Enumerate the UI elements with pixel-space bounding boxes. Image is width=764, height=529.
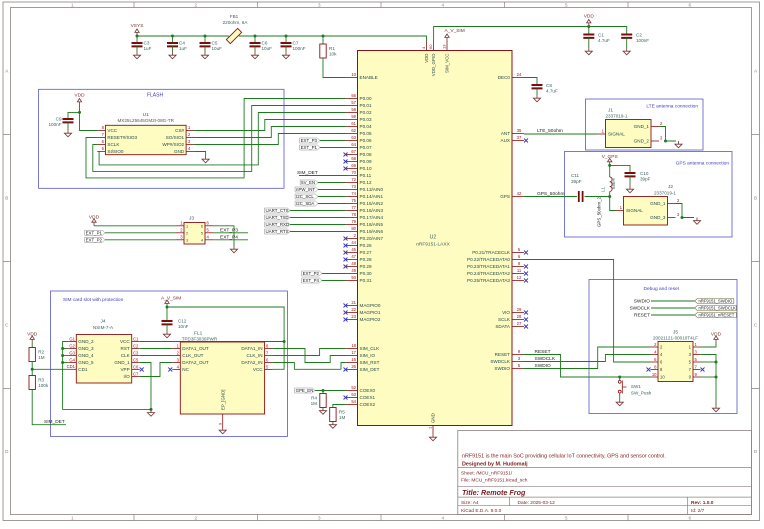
junction VCC/A_V_SIM	[283, 340, 286, 343]
wire I/O to DATA2_OUT	[140, 363, 173, 377]
wire EXT_P2 to P0.30	[322, 273, 346, 275]
svg-text:EXT_P1: EXT_P1	[301, 145, 318, 150]
svg-text:GPS: GPS	[500, 194, 510, 199]
svg-text:R3: R3	[38, 377, 44, 382]
flash memory U1	[97, 112, 194, 155]
wire SWDIO hier	[651, 300, 695, 302]
svg-text:75: 75	[351, 198, 356, 203]
wire RST to DATA1_OUT	[140, 348, 173, 350]
svg-text:1: 1	[71, 515, 74, 520]
svg-text:CLK_IN: CLK_IN	[247, 353, 263, 358]
resistor R2	[29, 348, 45, 362]
power symbol VDD (J5)	[711, 332, 722, 344]
svg-text:SIM_DET: SIM_DET	[44, 419, 65, 425]
wire R2 to R3	[31, 362, 33, 376]
wire to R4	[322, 391, 324, 394]
junction R2/R3/CD1	[31, 368, 34, 371]
svg-text:4: 4	[201, 238, 203, 242]
wire J4 GND stub	[63, 348, 69, 350]
svg-text:3: 3	[318, 515, 321, 520]
svg-text:220ohm, 6A: 220ohm, 6A	[223, 20, 249, 25]
svg-text:10k: 10k	[329, 52, 337, 57]
svg-text:60: 60	[428, 44, 433, 49]
svg-text:P0.22/TRACEDATA0: P0.22/TRACEDATA0	[467, 257, 510, 262]
wire to SIM_RST	[341, 363, 346, 370]
global label EXT_P2 (U2)	[302, 271, 322, 276]
power symbol VDD (top right)	[584, 14, 595, 27]
svg-text:C1: C1	[133, 336, 139, 341]
wire DATA1_IN to SIM_IO	[273, 349, 346, 363]
wire C4 to ground	[172, 46, 174, 52]
svg-text:DATA1_IN: DATA1_IN	[241, 346, 262, 351]
svg-text:RESET#/SIO3: RESET#/SIO3	[107, 135, 137, 140]
svg-text:4: 4	[441, 515, 444, 520]
svg-text:P0.25/TRACEDATA3: P0.25/TRACEDATA3	[467, 278, 510, 283]
global label I2C_SCL	[295, 194, 318, 199]
wire J3 pin5 EXT_P3	[213, 232, 248, 234]
wire U1 SO to U2 P0.04	[194, 127, 345, 138]
junction J5 pin5	[715, 361, 718, 364]
svg-text:B: B	[754, 196, 757, 201]
junction rail/C4	[171, 35, 174, 38]
resistor R4	[311, 394, 327, 408]
resistor R1	[320, 44, 337, 58]
debug connector J5	[651, 330, 701, 382]
wire RESET hier	[651, 314, 695, 316]
svg-text:VPP: VPP	[120, 367, 129, 372]
svg-text:VSYS: VSYS	[131, 23, 144, 29]
svg-text:42: 42	[517, 191, 522, 196]
no-connect J4 VPP	[140, 368, 144, 372]
svg-text:78: 78	[351, 212, 356, 217]
svg-text:SW_Push: SW_Push	[631, 391, 652, 396]
svg-text:SWDCLK: SWDCLK	[490, 359, 511, 364]
svg-text:VIO: VIO	[502, 310, 510, 315]
svg-text:UART_RTS: UART_RTS	[266, 229, 289, 234]
svg-text:VDD: VDD	[89, 215, 100, 221]
svg-text:COEX0: COEX0	[360, 388, 376, 393]
svg-text:5: 5	[201, 231, 203, 235]
resistor R5	[330, 408, 346, 422]
wire V_GPS to C10	[610, 165, 630, 173]
ground below R5	[329, 422, 336, 429]
junction J5 pin9	[715, 376, 718, 379]
svg-text:GND: GND	[431, 413, 436, 423]
svg-text:SW1: SW1	[631, 384, 641, 389]
wire R1 to ENABLE	[323, 58, 346, 78]
svg-text:L1: L1	[601, 186, 606, 191]
wire SIM_DET to P0.11	[299, 175, 346, 177]
hierarchical label nRF9151_SWDCLK	[695, 306, 737, 311]
junction V_GPS	[608, 164, 611, 167]
svg-text:SO/SIO1: SO/SIO1	[166, 135, 185, 140]
wire SWDIO to J5 pin2	[524, 347, 651, 369]
wire VDD_GPIO to VDD symbol	[434, 27, 589, 42]
svg-text:6: 6	[201, 224, 203, 228]
ground below C8	[533, 95, 540, 102]
wire CLK_IN to SIM_CLK	[273, 349, 346, 356]
wire C9 to ground	[67, 122, 69, 130]
antenna connector J1	[598, 108, 664, 148]
svg-text:SCLK: SCLK	[107, 142, 120, 147]
svg-text:45: 45	[351, 247, 356, 252]
svg-text:P0.10: P0.10	[360, 166, 372, 171]
svg-text:P0.02: P0.02	[360, 110, 372, 115]
ground below C6	[251, 52, 258, 59]
no-connect FL1 NC	[168, 368, 172, 372]
wire C11 to L1 node	[585, 196, 610, 198]
junction A_V_SIM	[166, 306, 169, 309]
svg-text:UART_RXD: UART_RXD	[266, 222, 290, 227]
svg-text:57: 57	[351, 100, 356, 105]
LTE antenna group box	[586, 99, 704, 150]
svg-text:COEX1: COEX1	[360, 395, 376, 400]
svg-text:Id: 2/7: Id: 2/7	[691, 508, 705, 514]
power symbol VDD (SIM)	[27, 332, 38, 344]
Debug group box	[589, 280, 737, 414]
svg-text:I/O: I/O	[124, 374, 131, 379]
wire C5 to ground	[204, 46, 206, 52]
svg-text:EXT_P3: EXT_P3	[301, 138, 318, 143]
svg-text:2: 2	[194, 515, 197, 520]
wire VDD rail right to U2 VDD pin	[239, 36, 427, 41]
title block	[458, 431, 752, 515]
junction GPS/L1	[608, 195, 611, 198]
svg-text:50: 50	[351, 275, 356, 280]
svg-text:16: 16	[351, 357, 356, 362]
ground below C9	[64, 130, 71, 137]
svg-text:EXT_P3: EXT_P3	[220, 227, 238, 233]
wire GND_1 down	[140, 363, 151, 410]
svg-text:TPD3F3030PWR: TPD3F3030PWR	[182, 337, 218, 342]
svg-text:SIM_VCC: SIM_VCC	[445, 54, 450, 74]
ground below U1 GND	[202, 156, 209, 163]
svg-text:GND: GND	[174, 149, 185, 154]
capacitor C8	[532, 83, 558, 94]
wire rail to C3	[136, 36, 138, 43]
wire R3 to SIM_DET	[32, 390, 66, 425]
svg-text:10nF: 10nF	[178, 324, 189, 329]
SIM group box	[51, 291, 288, 437]
global label I2C_SDA	[295, 201, 318, 206]
svg-text:2: 2	[194, 3, 197, 8]
svg-text:AUX: AUX	[501, 138, 510, 143]
wire UART_CTS	[290, 210, 346, 212]
svg-text:SWDIO: SWDIO	[494, 366, 510, 371]
svg-text:DATA1_OUT: DATA1_OUT	[182, 346, 209, 351]
wire DEC0 to C8	[524, 78, 537, 86]
svg-text:P0.21/TRACECLK: P0.21/TRACECLK	[472, 250, 511, 255]
power symbol A_V_SIM (U2)	[445, 28, 465, 41]
svg-text:C5: C5	[212, 41, 218, 46]
svg-text:GND_1: GND_1	[650, 201, 666, 206]
ground J1	[675, 141, 682, 148]
antenna connector J2	[616, 184, 681, 225]
wire VDD to C2	[589, 27, 627, 35]
wire C2 to ground	[626, 38, 628, 48]
wire rail to C4	[172, 36, 174, 43]
SIM filter FL1 TPD3F3030PWR	[172, 331, 272, 428]
svg-text:EXT_P1: EXT_P1	[86, 230, 103, 235]
svg-text:GND_4: GND_4	[78, 353, 94, 358]
ground below C10	[626, 186, 633, 193]
wire EXT_P3 to P0.06	[320, 140, 346, 142]
svg-text:CS#: CS#	[175, 128, 184, 133]
junction J4 GND tie	[61, 354, 64, 357]
wire C10 to ground	[629, 176, 631, 186]
svg-text:4.7uF: 4.7uF	[546, 89, 558, 94]
ground below C2	[623, 48, 630, 55]
svg-text:67: 67	[351, 149, 356, 154]
svg-text:C10: C10	[640, 171, 649, 176]
svg-text:10: 10	[652, 372, 657, 377]
svg-text:28: 28	[517, 314, 522, 319]
svg-text:nPW_INT: nPW_INT	[296, 187, 315, 192]
ground below C4	[169, 52, 176, 59]
wire EXT_P1 to P0.07	[320, 147, 346, 149]
ground below C1	[585, 48, 592, 55]
svg-text:EXT_P4: EXT_P4	[220, 234, 238, 240]
svg-text:MX25L25645GM2I-08G-TR: MX25L25645GM2I-08G-TR	[117, 118, 174, 123]
svg-text:52: 52	[351, 385, 356, 390]
capacitor C3	[132, 41, 152, 52]
svg-text:nRF9151_nRESET: nRF9151_nRESET	[699, 313, 735, 318]
junction SIM ground	[150, 408, 153, 411]
global label UART_RXD	[265, 222, 291, 227]
wire I2C_SCL	[318, 196, 346, 198]
ground below U2	[429, 434, 436, 441]
svg-text:39pF: 39pF	[640, 177, 651, 182]
svg-text:GPS antenna connection: GPS antenna connection	[676, 161, 730, 167]
wire J5 gnd rail	[701, 355, 717, 406]
power symbol A_V_SIM (SIM)	[161, 296, 181, 308]
svg-text:SWDCLK: SWDCLK	[629, 306, 650, 312]
svg-text:P0.24/TRACEDATA2: P0.24/TRACEDATA2	[467, 271, 510, 276]
svg-text:R5: R5	[339, 409, 345, 414]
svg-text:1M: 1M	[339, 415, 346, 420]
svg-text:EXT_P4: EXT_P4	[303, 278, 320, 283]
wire P0.22 to J5 pin6	[524, 260, 651, 363]
svg-text:73: 73	[351, 184, 356, 189]
svg-text:nRF9151 is the main SoC provid: nRF9151 is the main SoC providing cellul…	[462, 453, 666, 459]
svg-text:P0.19/AIN6: P0.19/AIN6	[360, 229, 384, 234]
wire to CD1	[32, 368, 68, 370]
wire J4 GND stub	[63, 362, 69, 364]
wire 5V_EN	[318, 182, 346, 184]
wire DATA2_IN toward SIM_RST	[273, 363, 341, 370]
svg-text:20021121-00010T4LF: 20021121-00010T4LF	[653, 336, 698, 341]
inductor L1	[601, 165, 616, 196]
ground FL1 EP	[219, 427, 226, 434]
svg-text:UART_TXD: UART_TXD	[266, 215, 289, 220]
svg-text:VDD: VDD	[74, 93, 85, 99]
svg-text:23: 23	[351, 314, 356, 319]
svg-text:1: 1	[71, 3, 74, 8]
wire UART_TXD	[290, 217, 346, 219]
svg-text:FLASH: FLASH	[147, 93, 164, 99]
wire rail to C7	[285, 36, 287, 43]
svg-text:11: 11	[517, 268, 522, 273]
svg-text:Sheet: /MCU_nRF9151/: Sheet: /MCU_nRF9151/	[461, 471, 513, 477]
svg-text:P0.06: P0.06	[360, 138, 372, 143]
junction J4 GND tie	[61, 347, 64, 350]
wire rail to C6	[254, 36, 256, 43]
svg-text:5V_EN: 5V_EN	[301, 180, 315, 185]
svg-text:Debug and reset: Debug and reset	[644, 286, 680, 292]
svg-text:ENABLE: ENABLE	[360, 75, 378, 80]
svg-text:56: 56	[351, 93, 356, 98]
svg-text:77: 77	[351, 205, 356, 210]
ground below C5	[201, 52, 208, 59]
svg-text:C6: C6	[133, 364, 139, 369]
wire ANT to J1 SIGNAL	[524, 133, 598, 135]
wire GPE_EN to COEX0	[315, 390, 346, 392]
power symbol VDD (flash)	[74, 93, 85, 106]
svg-text:nRF9151-LAXX: nRF9151-LAXX	[416, 242, 450, 248]
wire nPW_INT	[318, 189, 346, 191]
svg-text:MAGPIO0: MAGPIO0	[360, 303, 381, 308]
svg-text:GND_5: GND_5	[78, 360, 94, 365]
svg-text:GND_1: GND_1	[114, 360, 130, 365]
svg-text:R4: R4	[311, 395, 317, 400]
svg-text:EXT_P2: EXT_P2	[303, 271, 320, 276]
svg-text:3: 3	[318, 3, 321, 8]
svg-text:SIM_RST: SIM_RST	[360, 360, 380, 365]
global label nPW_INT	[295, 187, 318, 192]
svg-text:GND_2: GND_2	[78, 339, 94, 344]
svg-text:LTE_50ohm: LTE_50ohm	[537, 128, 563, 134]
svg-text:39pF: 39pF	[571, 179, 582, 184]
svg-text:GND_3: GND_3	[78, 346, 94, 351]
ground below C3	[133, 52, 140, 59]
svg-text:13: 13	[442, 44, 447, 49]
switch SW1	[618, 377, 651, 396]
svg-text:GPE_EN: GPE_EN	[296, 388, 314, 393]
svg-text:C12: C12	[178, 319, 187, 324]
capacitor C4	[167, 41, 187, 52]
junction J4 GND tie	[61, 361, 64, 364]
wire GPS to C11	[524, 196, 577, 198]
wire C8 to ground	[536, 88, 538, 95]
capacitor C12	[162, 319, 189, 330]
junction rail/C5	[204, 35, 207, 38]
svg-text:P0.04: P0.04	[360, 124, 372, 129]
svg-text:P0.11: P0.11	[360, 173, 372, 178]
svg-text:V_GPS: V_GPS	[602, 154, 618, 160]
capacitor C10	[625, 171, 651, 182]
svg-text:SIM card slot with protection: SIM card slot with protection	[63, 297, 124, 303]
svg-text:DATA2_IN: DATA2_IN	[241, 360, 262, 365]
svg-text:DATA2_OUT: DATA2_OUT	[182, 360, 209, 365]
GPS antenna group box	[565, 152, 733, 238]
wire VSYS rail left	[137, 35, 229, 37]
svg-text:10uF: 10uF	[212, 46, 223, 51]
junction SW1	[618, 376, 621, 379]
capacitor C5	[200, 41, 223, 52]
svg-text:R1: R1	[329, 46, 335, 51]
wire U1 CS# to U2 P0.03	[194, 120, 345, 131]
svg-text:P0.20/AIN7: P0.20/AIN7	[360, 236, 384, 241]
svg-text:54: 54	[351, 399, 356, 404]
ground below C12	[163, 331, 170, 338]
capacitor C7	[281, 41, 306, 52]
svg-text:GND_3: GND_3	[650, 215, 666, 220]
svg-text:A_V_SIM: A_V_SIM	[161, 296, 181, 302]
svg-text:37: 37	[517, 135, 522, 140]
svg-text:U2: U2	[430, 235, 437, 241]
svg-text:2337019-1: 2337019-1	[654, 191, 676, 196]
ground below R4	[319, 408, 326, 415]
junction VDD/C9	[78, 111, 81, 114]
svg-text:Designed by M. Hudomalj: Designed by M. Hudomalj	[462, 462, 528, 468]
svg-text:17: 17	[351, 350, 356, 355]
svg-text:VCC: VCC	[120, 339, 130, 344]
svg-text:B: B	[5, 196, 8, 201]
svg-text:VDD: VDD	[711, 332, 722, 338]
junction rail/C3	[136, 35, 139, 38]
svg-text:3: 3	[186, 238, 188, 242]
svg-text:1uF: 1uF	[144, 46, 152, 51]
wire U1 WP# to U2 P0.05	[194, 134, 345, 145]
svg-text:I2C_SDA: I2C_SDA	[296, 201, 314, 206]
svg-text:2337019-1: 2337019-1	[606, 114, 628, 119]
wire C1 to ground	[588, 38, 590, 48]
svg-text:CD1: CD1	[78, 367, 88, 372]
svg-text:P0.27: P0.27	[360, 250, 372, 255]
svg-text:COEX2: COEX2	[360, 402, 376, 407]
svg-text:72: 72	[351, 177, 356, 182]
svg-text:FB1: FB1	[230, 14, 239, 19]
global label UART_TXD	[265, 215, 291, 220]
svg-text:C3: C3	[133, 350, 139, 355]
svg-text:R2: R2	[38, 349, 44, 354]
svg-text:GPS_50ohm_2: GPS_50ohm_2	[597, 196, 602, 227]
global label EXT_P2	[85, 237, 105, 242]
svg-text:SCLK: SCLK	[498, 317, 511, 322]
wire to C9	[68, 112, 80, 119]
svg-text:SDATA: SDATA	[495, 324, 511, 329]
ground SIM	[147, 409, 154, 416]
wire C3 to ground	[136, 46, 138, 52]
wire EXT_P1 to J3 pin2	[105, 232, 176, 234]
svg-text:63: 63	[351, 135, 356, 140]
svg-text:C7: C7	[293, 41, 299, 46]
wire UART_RXD	[290, 224, 346, 226]
svg-text:ANT: ANT	[501, 131, 510, 136]
svg-text:74: 74	[351, 191, 356, 196]
svg-text:NSIM-7-A: NSIM-7-A	[93, 325, 114, 330]
svg-text:VDD_GPIO: VDD_GPIO	[431, 53, 436, 76]
svg-text:GND_2: GND_2	[634, 139, 650, 144]
wire J1 grounds	[659, 127, 676, 142]
svg-text:J4: J4	[100, 319, 105, 325]
svg-text:4: 4	[441, 3, 444, 8]
junction J2 GND	[681, 216, 684, 219]
wire SW1 to ground	[619, 393, 621, 399]
junction rail/C6	[254, 35, 257, 38]
svg-text:P0.18/AIN5: P0.18/AIN5	[360, 222, 384, 227]
svg-text:P0.17/AIN4: P0.17/AIN4	[360, 215, 384, 220]
no-connect J5 pin8	[647, 368, 651, 372]
wire rail to R1	[322, 36, 324, 44]
svg-text:P0.09: P0.09	[360, 159, 372, 164]
svg-text:P0.29: P0.29	[360, 264, 372, 269]
svg-text:C8: C8	[546, 83, 552, 88]
svg-text:LTE antenna connection: LTE antenna connection	[646, 104, 698, 110]
svg-text:2: 2	[186, 231, 188, 235]
capacitor C9	[48, 117, 73, 128]
wire C12 to ground	[166, 324, 168, 331]
